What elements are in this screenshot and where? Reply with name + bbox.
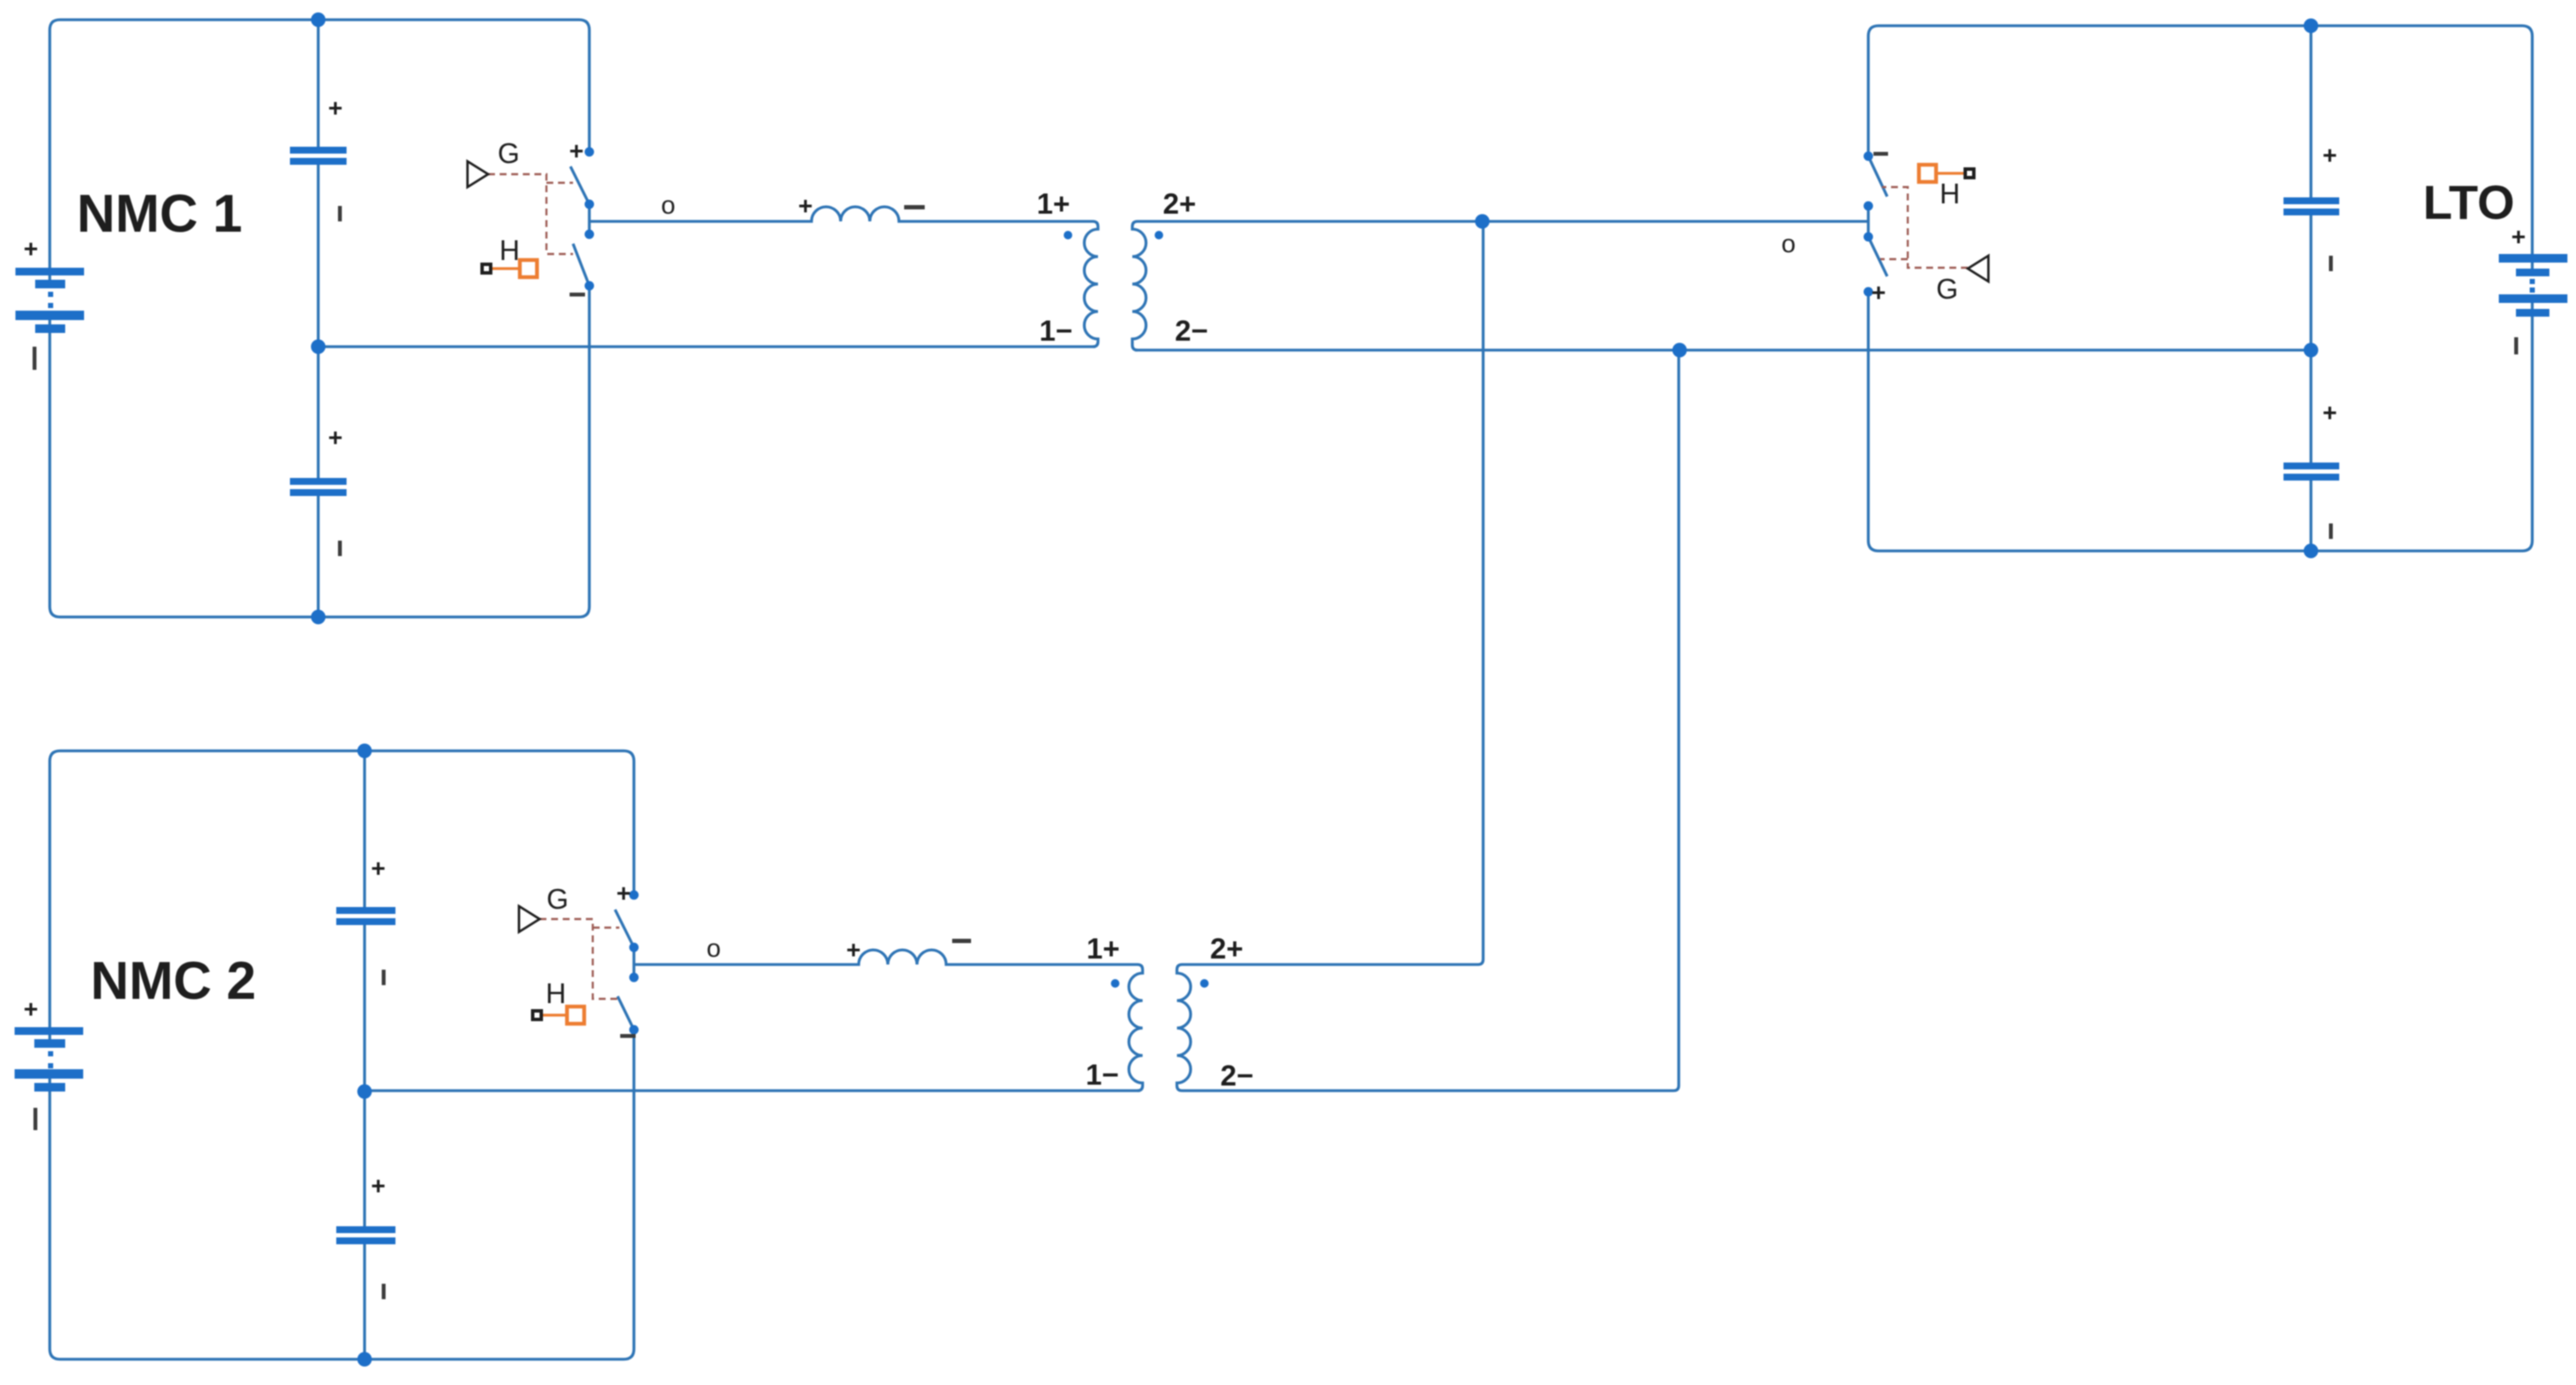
svg-text:1−: 1− [1086, 1059, 1119, 1092]
svg-text:o: o [661, 191, 676, 220]
svg-text:2+: 2+ [1163, 188, 1197, 221]
svg-text:+: + [617, 880, 631, 908]
svg-text:+: + [2323, 400, 2338, 427]
svg-text:o: o [1782, 230, 1796, 258]
svg-text:+: + [24, 236, 39, 263]
svg-text:1+: 1+ [1087, 933, 1120, 965]
svg-text:+: + [329, 95, 343, 123]
svg-text:LTO: LTO [2423, 175, 2515, 229]
svg-text:H: H [1940, 178, 1960, 209]
svg-text:+: + [570, 138, 584, 166]
svg-text:+: + [1872, 280, 1886, 307]
svg-text:2−: 2− [1175, 315, 1209, 348]
svg-text:+: + [2323, 142, 2338, 170]
svg-text:1+: 1+ [1037, 188, 1071, 221]
svg-text:NMC 1: NMC 1 [77, 184, 243, 244]
svg-text:2+: 2+ [1210, 933, 1244, 965]
svg-text:+: + [24, 996, 39, 1024]
svg-text:2−: 2− [1221, 1060, 1254, 1092]
svg-text:NMC 2: NMC 2 [91, 952, 256, 1011]
svg-text:H: H [546, 977, 566, 1009]
svg-text:G: G [546, 883, 569, 915]
svg-text:+: + [329, 425, 343, 452]
svg-text:1−: 1− [1040, 315, 1073, 348]
svg-text:+: + [2512, 224, 2526, 251]
svg-text:+: + [799, 193, 813, 221]
svg-text:G: G [498, 137, 520, 169]
svg-text:+: + [371, 856, 386, 883]
svg-text:+: + [371, 1173, 386, 1201]
svg-text:o: o [707, 934, 721, 963]
svg-text:+: + [847, 937, 861, 965]
svg-text:H: H [499, 234, 520, 266]
svg-text:G: G [1936, 273, 1958, 305]
